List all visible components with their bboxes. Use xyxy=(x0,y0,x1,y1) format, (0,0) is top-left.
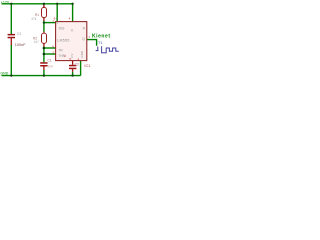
svg-text:DIS: DIS xyxy=(59,27,65,31)
svg-text:THR: THR xyxy=(58,54,65,58)
svg-text:IC1: IC1 xyxy=(84,64,90,68)
svg-text:+12V: +12V xyxy=(1,0,10,4)
svg-text:LM555: LM555 xyxy=(57,39,69,43)
svg-text:TR: TR xyxy=(58,48,63,52)
svg-text:C1: C1 xyxy=(47,59,51,63)
svg-text:4k7: 4k7 xyxy=(34,40,39,44)
svg-text:GND: GND xyxy=(0,72,8,76)
svg-text:VCC: VCC xyxy=(55,17,59,24)
svg-text:C2: C2 xyxy=(75,63,79,67)
svg-text:C3: C3 xyxy=(17,32,21,36)
svg-text:100nF: 100nF xyxy=(15,43,26,47)
svg-text:47k: 47k xyxy=(31,17,37,21)
svg-text:Kienet: Kienet xyxy=(92,34,111,40)
svg-text:CV: CV xyxy=(70,53,74,57)
svg-text:GND: GND xyxy=(80,50,84,58)
svg-text:10n: 10n xyxy=(48,64,54,68)
svg-text:T1: T1 xyxy=(98,41,102,45)
